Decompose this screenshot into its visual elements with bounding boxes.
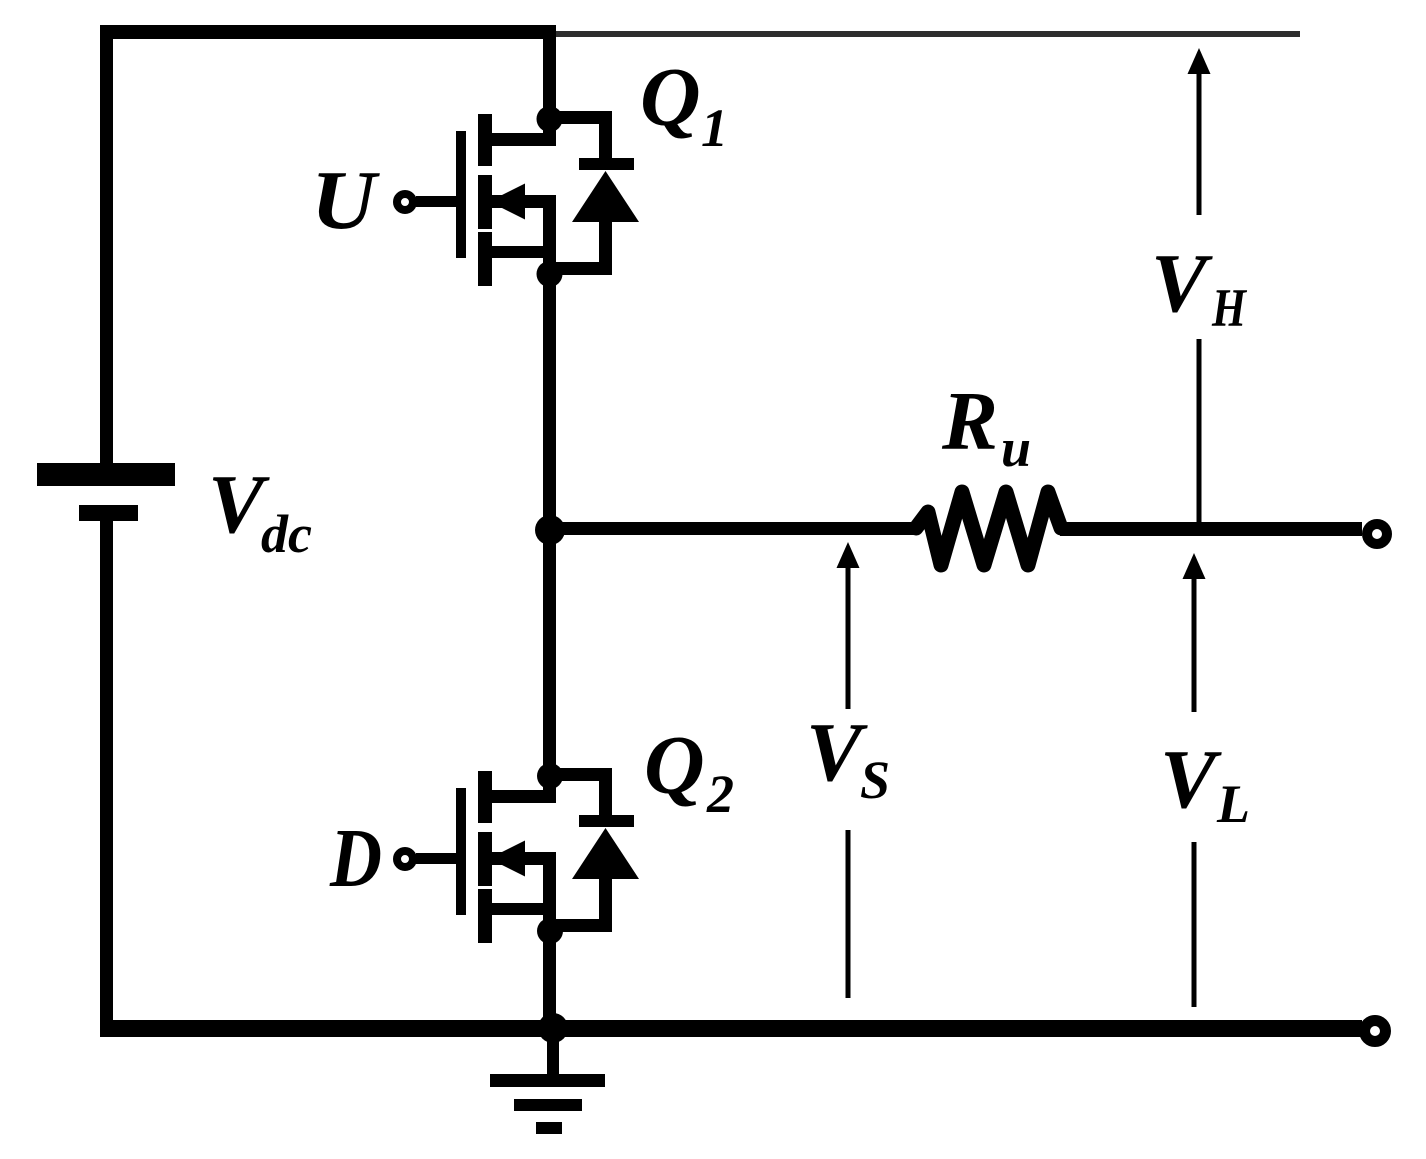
transistor Q2 diode vertical upper: [599, 781, 612, 817]
svg-text:2: 2: [706, 764, 734, 824]
wire: left rail upper segment: [100, 25, 113, 463]
battery Vdc positive plate: [37, 463, 175, 486]
arrow VL upper segment: [1183, 553, 1206, 579]
wire: output node to resistor: [549, 522, 918, 535]
transistor Q2 channel bar top: [478, 771, 492, 823]
terminal: upper output: [1367, 524, 1387, 544]
transistor Q2 source connection: [491, 903, 556, 915]
svg-text:1: 1: [701, 98, 728, 158]
svg-text:u: u: [1001, 418, 1031, 478]
arrow VS lower segment: [846, 830, 851, 998]
transistor Q2 gate terminal circle: [397, 851, 413, 867]
transistor Q2 body wire: [491, 852, 556, 865]
node: Q2 source dot: [537, 918, 563, 944]
transistor Q2 gate lead: [416, 853, 456, 864]
transistor Q1 diode vertical lower: [599, 222, 612, 269]
battery Vdc negative plate: [79, 505, 138, 521]
svg-text:S: S: [860, 750, 890, 810]
wire: top rail thin extension: [556, 31, 1300, 37]
transistor Q2 drain connection: [491, 790, 556, 803]
arrow VH upper segment: [1188, 48, 1211, 74]
arrow VH lower segment: [1197, 339, 1202, 523]
arrow VL lower segment: [1192, 842, 1197, 1007]
svg-text:D: D: [329, 812, 382, 905]
transistor Q2 diode cathode bar: [579, 815, 634, 827]
svg-text:V: V: [806, 706, 868, 799]
transistor Q2 channel bar middle: [478, 832, 492, 886]
transistor Q2 diode triangle: [572, 828, 639, 879]
transistor Q1 channel bar top: [478, 114, 492, 166]
wire: center column Q1 drain from top rail: [543, 25, 556, 146]
transistor Q1 body arrowhead: [489, 184, 525, 220]
transistor Q2 body-diode branch bottom: [549, 919, 612, 932]
svg-text:L: L: [1216, 774, 1250, 834]
transistor Q1 body wire: [491, 195, 556, 208]
svg-text:Q: Q: [644, 719, 705, 812]
transistor Q1 gate lead: [416, 196, 456, 207]
transistor Q1 body-diode branch bottom: [549, 262, 612, 275]
transistor Q1 diode triangle: [572, 171, 639, 222]
transistor Q1 diode vertical upper: [599, 124, 612, 160]
transistor Q1 gate bar: [456, 131, 466, 258]
svg-text:Q: Q: [640, 51, 701, 144]
svg-text:V: V: [1151, 237, 1213, 330]
transistor Q2 diode vertical lower: [599, 879, 612, 926]
transistor Q2 body arrowhead: [489, 841, 525, 877]
transistor Q1 source connection: [491, 246, 556, 258]
transistor Q2 body-diode branch top: [549, 768, 612, 781]
arrow VS upper segment: [837, 542, 860, 568]
node: midpoint output dot: [535, 515, 565, 545]
svg-text:H: H: [1211, 278, 1247, 338]
transistor Q1 channel bar bottom: [478, 232, 492, 286]
svg-text:R: R: [941, 375, 998, 468]
wire: bottom rail: [100, 1020, 1362, 1037]
transistor Q1 body-diode branch top: [549, 111, 612, 124]
node: Q2 drain dot: [537, 763, 563, 789]
ground bar 3: [536, 1122, 562, 1134]
node: Q1 source dot: [537, 261, 563, 287]
svg-text:U: U: [311, 154, 381, 247]
transistor Q1 diode cathode bar: [579, 158, 634, 170]
resistor Ru: [916, 492, 1061, 565]
wire: center column Q1 source to Q2 drain: [543, 195, 556, 803]
wire: resistor to upper output terminal: [1060, 522, 1362, 536]
node: Q1 drain dot: [537, 106, 563, 132]
transistor Q2 gate bar: [456, 788, 466, 915]
ground stem: [547, 1036, 559, 1076]
transistor Q1 gate terminal circle: [397, 194, 413, 210]
transistor Q1 drain connection: [491, 133, 556, 146]
wire: top rail (thick): [100, 25, 556, 39]
svg-text:V: V: [1160, 733, 1222, 826]
svg-text:dc: dc: [261, 504, 312, 564]
wire: center column Q2 source to bottom rail: [543, 852, 556, 1036]
node: bottom junction dot: [538, 1013, 568, 1043]
wire: left rail lower segment: [100, 521, 113, 1036]
ground bar 2: [514, 1099, 582, 1111]
transistor Q1 channel bar middle: [478, 175, 492, 229]
terminal: bottom output: [1365, 1021, 1386, 1042]
ground bar 1: [490, 1074, 605, 1087]
transistor Q2 channel bar bottom: [478, 889, 492, 943]
